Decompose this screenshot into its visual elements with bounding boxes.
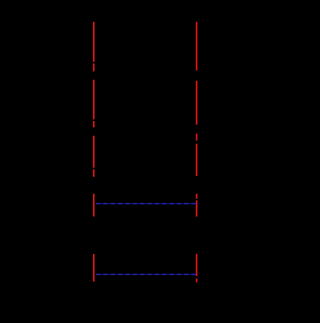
wire segment L8 xyxy=(93,254,95,282)
upper blue dashed horizontal connector (y=203.6) xyxy=(96,203,196,205)
wire segment R2 xyxy=(196,81,198,125)
wire segment L3 xyxy=(93,80,95,120)
wire segment R4 xyxy=(196,144,198,176)
wire segment R3 xyxy=(196,134,198,141)
wire segment L5 xyxy=(93,136,95,168)
wire segment L1 xyxy=(93,22,95,62)
wire segment R5 xyxy=(196,194,198,199)
wire segment R6 xyxy=(196,200,198,216)
wire segment R7 xyxy=(196,254,198,276)
right red dashed vertical line (x=196.6) xyxy=(196,22,198,283)
wire segment R8 xyxy=(196,278,198,282)
left red dashed vertical line (x=93.6) xyxy=(93,22,95,282)
lower blue dashed horizontal connector (y=274.4) xyxy=(96,273,196,275)
wire segment L2 xyxy=(93,63,95,71)
wire segment L6 xyxy=(93,169,95,177)
wire segment L7 xyxy=(93,194,95,217)
wire segment R1 xyxy=(196,22,198,71)
wire segment L4 xyxy=(93,121,95,127)
